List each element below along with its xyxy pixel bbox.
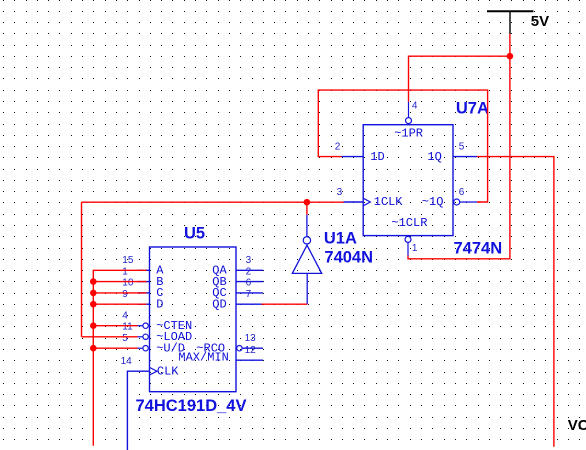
svg-text:CLK: CLK bbox=[157, 364, 179, 378]
pin 3 clock triangle bbox=[363, 198, 370, 206]
svg-text:6: 6 bbox=[246, 278, 252, 289]
svg-text:6: 6 bbox=[459, 187, 465, 198]
U5 pin name texts bbox=[156, 264, 229, 379]
U5 box bbox=[150, 247, 237, 392]
pin QD stub bbox=[236, 303, 263, 305]
pin ~CTEN stub and bubble bbox=[138, 325, 143, 327]
wire left bus: row A into vertical bus bbox=[93, 270, 146, 445]
wire branch ~CTEN bbox=[93, 325, 137, 327]
pin QC stub bbox=[236, 292, 263, 294]
power 5V symbol bbox=[487, 11, 533, 34]
svg-text:5: 5 bbox=[122, 333, 128, 344]
svg-text:1D: 1D bbox=[370, 150, 384, 164]
pin 4 ~1PR stub and bubble bbox=[408, 102, 410, 118]
junction at inverter output / 1CLK bbox=[304, 199, 311, 206]
svg-text:4: 4 bbox=[122, 311, 128, 322]
svg-text:1Q: 1Q bbox=[427, 150, 441, 164]
inverter triangle bbox=[292, 245, 321, 273]
pin ~U/D stub and bubble bbox=[138, 347, 143, 349]
svg-text:9: 9 bbox=[122, 289, 128, 300]
pin QB stub bbox=[236, 281, 263, 283]
svg-text:15: 15 bbox=[122, 255, 134, 266]
pin 1 ~1CLR bubble and stub bbox=[405, 236, 411, 242]
svg-text:1CLK: 1CLK bbox=[374, 195, 404, 209]
svg-text:~1CLR: ~1CLR bbox=[391, 216, 427, 230]
svg-text:11: 11 bbox=[122, 322, 133, 333]
junction bus row C bbox=[90, 290, 97, 297]
svg-text:U7A: U7A bbox=[456, 99, 489, 117]
svg-text:5V: 5V bbox=[531, 13, 549, 30]
svg-text:74HC191D_4V: 74HC191D_4V bbox=[136, 397, 247, 415]
wire branch row C bbox=[93, 292, 146, 294]
svg-text:U1A: U1A bbox=[324, 229, 357, 247]
wire 5V vertical main bbox=[408, 34, 510, 259]
wire net 1CLK horizontal run bbox=[82, 201, 344, 203]
svg-text:1: 1 bbox=[122, 266, 128, 277]
pin ~LOAD stub and bubble bbox=[138, 336, 143, 338]
pin B stub bbox=[138, 281, 150, 283]
junction bus ~CTEN bbox=[90, 322, 97, 329]
pin 2 1D stub bbox=[342, 156, 364, 158]
svg-text:5: 5 bbox=[459, 141, 465, 152]
U5 pin numbers bbox=[121, 255, 257, 367]
svg-text:2: 2 bbox=[246, 266, 252, 277]
wire QD to inverter input bbox=[262, 303, 308, 305]
svg-text:VCC: VCC bbox=[568, 417, 586, 434]
svg-text:7: 7 bbox=[246, 289, 252, 300]
pin 6 ~1Q bubble and stub bbox=[454, 199, 460, 205]
svg-text:~1PR: ~1PR bbox=[394, 127, 423, 141]
wire branch row B bbox=[93, 281, 146, 283]
svg-text:4: 4 bbox=[412, 101, 418, 112]
junction at 5V vertical bbox=[507, 53, 514, 60]
U7A pin name texts bbox=[370, 127, 443, 231]
junction bus row D bbox=[90, 301, 97, 308]
pin QA stub bbox=[236, 269, 263, 271]
svg-text:3: 3 bbox=[337, 187, 343, 198]
pin 3 1CLK stub bbox=[344, 201, 364, 203]
svg-text:14: 14 bbox=[121, 356, 133, 367]
junction bus row B bbox=[90, 278, 97, 285]
svg-text:3: 3 bbox=[246, 255, 252, 266]
U7A pin numbers bbox=[335, 101, 465, 255]
pin CLK clock triangle bbox=[150, 367, 158, 375]
inverter output stub bbox=[306, 215, 308, 237]
wire branch row D bbox=[93, 303, 146, 305]
wire 1Q output to right edge bbox=[477, 157, 554, 447]
wire CLK to bottom edge (blue net) bbox=[127, 371, 149, 450]
pin C stub bbox=[138, 292, 150, 294]
svg-text:1: 1 bbox=[412, 243, 418, 254]
inverter bubble bbox=[303, 237, 310, 244]
svg-text:7404N: 7404N bbox=[324, 249, 373, 267]
svg-text:13: 13 bbox=[245, 333, 257, 344]
wire branch ~U/D bbox=[93, 347, 137, 349]
svg-text:MAX/MIN: MAX/MIN bbox=[178, 350, 228, 364]
svg-text:QD: QD bbox=[212, 297, 226, 311]
svg-text:U5: U5 bbox=[184, 224, 205, 242]
wire branch to ~LOAD pin bbox=[82, 336, 138, 338]
U7A box bbox=[363, 125, 453, 236]
wire 5V branch to ~1PR pin 4 bbox=[409, 56, 510, 101]
svg-text:~1Q: ~1Q bbox=[422, 195, 444, 209]
inverter input stub bbox=[306, 273, 308, 304]
svg-text:D: D bbox=[156, 297, 163, 311]
junction bus ~U/D bbox=[90, 345, 97, 352]
wire 1D feedback loop bbox=[318, 90, 487, 202]
pin MAX/MIN stub bbox=[236, 359, 263, 361]
svg-text:2: 2 bbox=[335, 141, 341, 152]
wire net 1CLK left vertical drop bbox=[81, 202, 83, 337]
pin A stub bbox=[138, 269, 150, 271]
pin 5 1Q stub bbox=[453, 156, 477, 158]
svg-text:12: 12 bbox=[245, 345, 257, 356]
pin ~RCO bubble and stub bbox=[237, 346, 242, 351]
svg-text:10: 10 bbox=[122, 278, 134, 289]
wire junction drop to inverter output bbox=[306, 202, 308, 215]
svg-text:7474N: 7474N bbox=[454, 239, 503, 257]
pin D stub bbox=[138, 303, 150, 305]
